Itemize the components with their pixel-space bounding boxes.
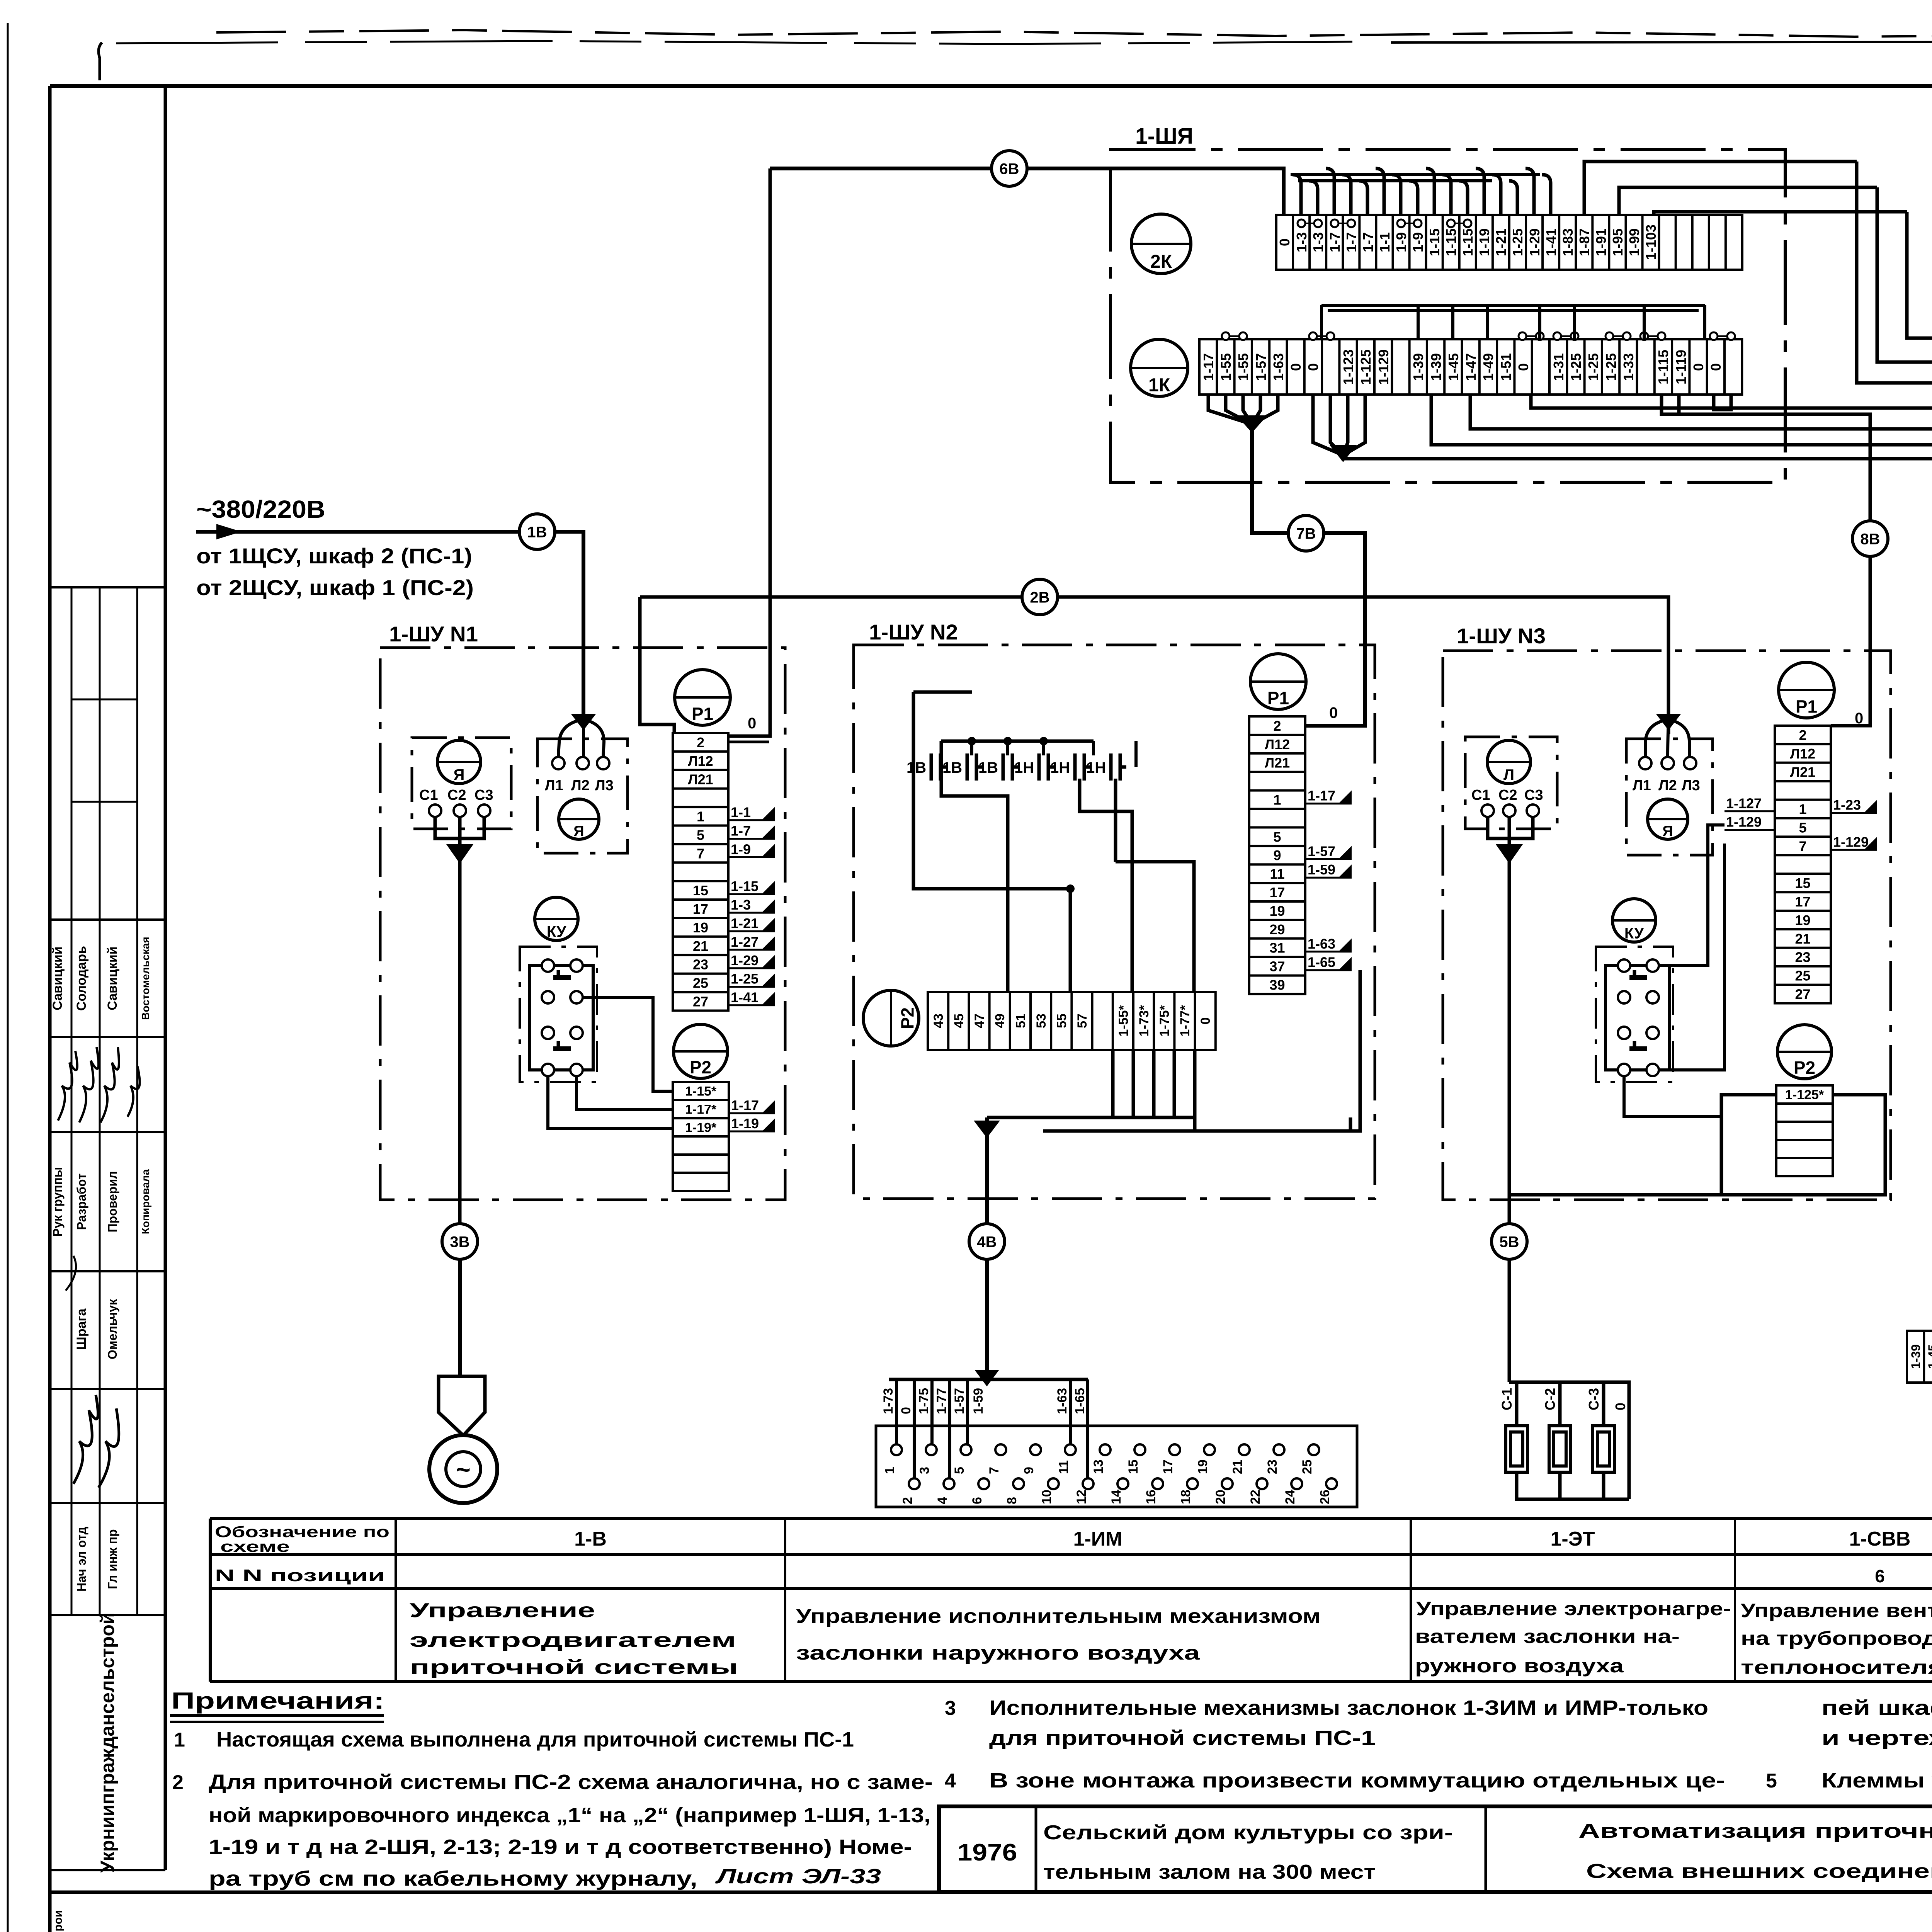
svg-text:и чертежами ЭЛ-: и чертежами ЭЛ-	[1821, 1726, 1932, 1750]
side stamp table	[51, 587, 165, 1870]
svg-text:5: 5	[1766, 1770, 1777, 1792]
svg-text:Гл инж пр: Гл инж пр	[105, 1529, 119, 1589]
svg-text:1-59: 1-59	[1308, 862, 1335, 878]
node 2В	[1022, 579, 1058, 615]
svg-text:1-21: 1-21	[731, 915, 759, 931]
svg-text:25: 25	[1795, 968, 1810, 984]
svg-text:0: 0	[1198, 1017, 1213, 1025]
svg-text:1-31: 1-31	[1551, 353, 1566, 381]
strip Р2 N3	[1776, 1085, 1833, 1176]
wires Р2 N3 to bottom bus	[1509, 1095, 1885, 1195]
svg-text:В зоне монтажа произвести: В зоне монтажа произвести коммутацию отд…	[989, 1769, 1725, 1792]
svg-text:2: 2	[697, 735, 704, 750]
svg-text:5: 5	[1799, 820, 1806, 835]
svg-text:С1: С1	[1471, 787, 1490, 803]
svg-text:1-129: 1-129	[1376, 349, 1391, 385]
svg-text:7В: 7В	[1296, 525, 1316, 542]
svg-text:14: 14	[1109, 1490, 1124, 1504]
svg-text:29: 29	[1269, 922, 1285, 937]
svg-text:55: 55	[1054, 1014, 1069, 1028]
svg-text:1-39: 1-39	[1428, 353, 1444, 381]
svg-text:27: 27	[1795, 986, 1810, 1002]
wires КУ to Р2 strip N1	[583, 997, 673, 1091]
svg-text:КУ: КУ	[547, 923, 566, 940]
relay Р2 circle N3	[1777, 1025, 1832, 1079]
svg-text:электродвигателем: электродвигателем	[410, 1629, 736, 1651]
svg-text:1-17*: 1-17*	[685, 1102, 717, 1117]
svg-text:23: 23	[693, 957, 708, 973]
svg-text:57: 57	[1075, 1014, 1090, 1028]
svg-text:2В: 2В	[1030, 589, 1049, 606]
svg-text:3В: 3В	[450, 1233, 469, 1250]
title block	[939, 1806, 1932, 1892]
svg-text:37: 37	[1269, 959, 1285, 975]
device table	[210, 1519, 1932, 1682]
svg-text:0: 0	[748, 715, 756, 732]
svg-text:39: 39	[1269, 977, 1285, 993]
terminal strip 2К	[1276, 215, 1742, 270]
motor unit box N3	[1465, 737, 1557, 829]
svg-text:1-39: 1-39	[1909, 1344, 1923, 1369]
svg-text:4: 4	[945, 1770, 956, 1792]
svg-text:5: 5	[1273, 829, 1281, 845]
svg-text:15: 15	[693, 883, 708, 898]
svg-text:25: 25	[1300, 1459, 1315, 1474]
wire labels 1-ИМ	[881, 1388, 1087, 1414]
svg-text:1-75*: 1-75*	[1157, 1005, 1172, 1037]
svg-text:1: 1	[883, 1467, 897, 1474]
svg-text:от 1ЩСУ, шкаф 2 (ПС-1): от 1ЩСУ, шкаф 2 (ПС-1)	[196, 544, 472, 568]
svg-text:1-25: 1-25	[1510, 228, 1526, 256]
svg-text:1-19*: 1-19*	[685, 1121, 717, 1135]
node 8В	[1852, 521, 1888, 556]
svg-text:1-87: 1-87	[1577, 228, 1592, 256]
svg-text:1-63: 1-63	[1055, 1388, 1070, 1414]
svg-text:1-3: 1-3	[731, 897, 751, 913]
svg-text:1-77*: 1-77*	[1178, 1005, 1192, 1037]
svg-text:1-95: 1-95	[1610, 228, 1626, 256]
svg-text:16: 16	[1144, 1490, 1158, 1504]
svg-text:1-73: 1-73	[881, 1388, 896, 1414]
svg-text:1-57: 1-57	[952, 1388, 967, 1414]
svg-text:43: 43	[931, 1014, 946, 1028]
motor Л circle N3	[1487, 740, 1531, 784]
relay Р2 circle N1	[673, 1024, 728, 1078]
jumper links on 1К strip	[1222, 332, 1735, 340]
svg-text:0: 0	[1708, 363, 1724, 371]
svg-text:С3: С3	[1524, 787, 1543, 803]
svg-text:23: 23	[1265, 1459, 1280, 1474]
svg-text:Рук группы: Рук группы	[51, 1167, 65, 1236]
svg-text:27: 27	[693, 994, 708, 1010]
svg-text:1-127: 1-127	[1726, 796, 1762, 811]
svg-text:1-3: 1-3	[1294, 232, 1310, 252]
contactor КУ box N3	[1596, 947, 1673, 1082]
svg-text:1-27: 1-27	[731, 934, 759, 950]
svg-text:1В: 1В	[906, 759, 926, 776]
svg-text:Для приточной системы ПС-2: Для приточной системы ПС-2 схема аналоги…	[209, 1770, 933, 1794]
svg-text:1-9: 1-9	[731, 841, 751, 857]
svg-text:Л1: Л1	[545, 777, 563, 794]
svg-text:1-СВВ: 1-СВВ	[1849, 1528, 1911, 1550]
svg-text:Управление: Управление	[410, 1599, 595, 1622]
svg-text:1-ШЯ: 1-ШЯ	[1135, 124, 1193, 149]
flags N1 P2	[729, 1097, 775, 1131]
stubs 1К strip to jumper buses	[1321, 305, 1705, 339]
contactor terminals N1	[552, 757, 609, 769]
svg-text:1-63: 1-63	[1308, 936, 1335, 952]
svg-text:Клеммы * демаркировать: Клеммы * демаркировать	[1821, 1769, 1932, 1792]
svg-text:1-129: 1-129	[1833, 834, 1869, 850]
svg-text:21: 21	[693, 938, 708, 954]
svg-text:19: 19	[1795, 912, 1810, 928]
stamp role labels	[51, 1167, 151, 1236]
svg-text:1-47: 1-47	[1463, 353, 1479, 381]
svg-text:49: 49	[993, 1014, 1007, 1028]
svg-text:1-7: 1-7	[1327, 232, 1343, 252]
node 4В	[969, 1224, 1005, 1259]
svg-text:1-15*: 1-15*	[685, 1084, 717, 1099]
svg-text:15: 15	[1795, 875, 1810, 891]
wire 1К to 1-2ТР (11В)	[1470, 395, 1932, 1376]
svg-text:3: 3	[945, 1697, 956, 1719]
svg-text:25: 25	[693, 975, 708, 991]
svg-text:31: 31	[1269, 940, 1285, 956]
wire merge to node 9В run	[1313, 395, 1365, 455]
node 6В	[992, 151, 1027, 186]
relay Р2 circle N2	[863, 990, 919, 1046]
svg-text:1-57: 1-57	[1253, 353, 1269, 381]
svg-text:0: 0	[1277, 238, 1293, 246]
svg-text:Шрага: Шрага	[74, 1308, 89, 1350]
svg-text:19: 19	[1196, 1459, 1210, 1474]
wires КУ to flags N3	[1659, 825, 1725, 966]
wire 1К right cells to 8В	[1662, 395, 1870, 726]
svg-text:1-75: 1-75	[917, 1388, 931, 1414]
jumper links on 2К strip	[1298, 219, 1471, 227]
svg-text:9: 9	[1022, 1467, 1036, 1474]
svg-text:1-9: 1-9	[1393, 232, 1409, 252]
svg-text:5: 5	[952, 1467, 967, 1474]
svg-text:Солодарь: Солодарь	[74, 946, 89, 1011]
svg-text:1-119: 1-119	[1673, 350, 1689, 384]
svg-text:на трубопроводе: на трубопроводе	[1741, 1628, 1932, 1649]
svg-text:Управление электронагре-: Управление электронагре-	[1416, 1598, 1731, 1619]
svg-text:1-15: 1-15	[731, 878, 759, 894]
strip Р2 N2	[928, 992, 1216, 1050]
svg-text:1-23: 1-23	[1833, 797, 1861, 813]
svg-text:12: 12	[1074, 1490, 1089, 1504]
wires below Р2 strip N2	[987, 1050, 1195, 1131]
heater 1-ЭТ fuse group	[1509, 1259, 1629, 1499]
svg-text:КУ: КУ	[1624, 925, 1644, 942]
wire 1К to ИМР (12В)	[1531, 395, 1932, 1381]
node 3В	[442, 1224, 478, 1259]
svg-text:1-21: 1-21	[1493, 228, 1509, 256]
svg-text:Л21: Л21	[688, 772, 713, 787]
svg-text:11: 11	[1056, 1460, 1071, 1474]
stamp role labels 2	[75, 1527, 119, 1592]
svg-text:1-33: 1-33	[1621, 353, 1636, 381]
svg-text:8В: 8В	[1860, 531, 1880, 548]
svg-text:1-99: 1-99	[1626, 228, 1642, 256]
svg-text:21: 21	[1230, 1459, 1245, 1474]
svg-text:1-15: 1-15	[1427, 228, 1442, 256]
contactor КУ circle N3	[1612, 899, 1656, 942]
svg-text:1-7: 1-7	[731, 823, 751, 839]
svg-text:Востомельская: Востомельская	[139, 937, 151, 1020]
svg-text:2К: 2К	[1150, 252, 1172, 272]
svg-text:1-ИМ: 1-ИМ	[1073, 1528, 1122, 1550]
motor Я circle N1	[437, 740, 481, 784]
svg-text:1-ШУ N3: 1-ШУ N3	[1457, 624, 1546, 648]
svg-text:24: 24	[1283, 1490, 1298, 1504]
contactor box Л1Л2Л3 N1	[537, 739, 628, 853]
svg-text:20: 20	[1213, 1490, 1228, 1504]
svg-text:1-59: 1-59	[971, 1388, 986, 1414]
relay Р1 circle N1	[675, 670, 730, 725]
svg-text:Л21: Л21	[1790, 764, 1815, 780]
svg-text:2: 2	[1273, 718, 1281, 734]
svg-text:1-19: 1-19	[731, 1116, 759, 1131]
svg-text:1: 1	[174, 1729, 185, 1751]
wire bus 6В	[770, 167, 992, 170]
svg-text:21: 21	[1795, 931, 1810, 947]
svg-text:13: 13	[1091, 1459, 1106, 1474]
svg-text:Р1: Р1	[1267, 688, 1289, 708]
svg-text:С-2: С-2	[1542, 1388, 1558, 1410]
wires 2К strip cells to bus	[1291, 168, 1551, 215]
svg-text:10: 10	[1039, 1490, 1054, 1504]
svg-text:17: 17	[693, 901, 708, 917]
svg-text:приточной системы: приточной системы	[410, 1656, 738, 1679]
node 1В	[519, 514, 555, 549]
stamp signatures	[58, 1047, 140, 1122]
svg-text:0: 0	[1855, 710, 1863, 727]
terminal block 2К label	[1131, 214, 1191, 274]
flags N1 P1	[728, 804, 775, 1005]
wire 7В to ШУ N2 strip	[1305, 533, 1365, 726]
svg-text:1-1: 1-1	[1377, 232, 1393, 252]
svg-text:Управление исполнительным ме: Управление исполнительным механизмом	[796, 1605, 1321, 1628]
contactor box N3	[1626, 739, 1713, 855]
svg-text:1-65: 1-65	[1308, 954, 1335, 970]
svg-text:Примечания:: Примечания:	[171, 1688, 384, 1714]
wire staircase to 15В	[1907, 212, 1932, 1381]
svg-text:1-65: 1-65	[1073, 1388, 1087, 1414]
svg-text:вателем заслонки на-: вателем заслонки на-	[1415, 1626, 1680, 1647]
flags N3 P1	[1725, 796, 1877, 850]
svg-text:1-25: 1-25	[1585, 353, 1601, 381]
1-ИМ pins	[891, 1444, 1337, 1489]
node 7В	[1288, 515, 1324, 551]
svg-text:1-7: 1-7	[1344, 232, 1359, 252]
svg-text:1-55: 1-55	[1218, 353, 1234, 381]
torn paper top edge	[99, 30, 1932, 80]
svg-text:ной маркировочного индекса: ной маркировочного индекса „1“ на „2“ (н…	[209, 1804, 930, 1827]
svg-text:Настоящая схема выполнена д: Настоящая схема выполнена для приточной …	[216, 1728, 854, 1751]
actuator 1-ИМ terminal box	[985, 1259, 989, 1379]
svg-text:1-19 и т д на 2-ШЯ, 2-13; 2: 1-19 и т д на 2-ШЯ, 2-13; 2-19 и т д соо…	[209, 1835, 912, 1859]
wire motor merge to 5В	[1488, 817, 1533, 1224]
stamp signatures 2	[73, 1395, 119, 1488]
svg-text:47: 47	[972, 1014, 987, 1028]
svg-text:N N позиции: N N позиции	[215, 1566, 385, 1585]
node 5В	[1492, 1224, 1527, 1259]
svg-text:С-1: С-1	[1499, 1388, 1515, 1410]
svg-text:1-17: 1-17	[1201, 353, 1216, 381]
svg-text:1-125: 1-125	[1358, 349, 1374, 385]
svg-text:0: 0	[1690, 363, 1706, 371]
svg-text:1-1: 1-1	[731, 804, 751, 820]
svg-text:1: 1	[697, 809, 704, 825]
svg-text:1-41: 1-41	[1543, 228, 1559, 256]
svg-text:пей шкафов ШУ в соответстви: пей шкафов ШУ в соответствии с настоящим…	[1821, 1696, 1932, 1719]
svg-text:23: 23	[1795, 949, 1810, 965]
svg-text:1-45: 1-45	[1926, 1344, 1932, 1369]
svg-text:1-17: 1-17	[731, 1097, 759, 1113]
contactor КУ circle N1	[535, 897, 578, 940]
svg-text:6В: 6В	[999, 160, 1019, 177]
svg-text:1-125*: 1-125*	[1785, 1088, 1824, 1102]
svg-text:4В: 4В	[977, 1233, 997, 1250]
wire 380V feed to node 1B	[196, 530, 519, 534]
svg-text:Л3: Л3	[595, 777, 614, 794]
svg-text:Я: Я	[573, 823, 584, 840]
svg-text:1-83: 1-83	[1560, 228, 1576, 256]
svg-text:1-25: 1-25	[731, 971, 759, 987]
svg-text:Л21: Л21	[1265, 755, 1290, 771]
wire motor feed merge to 3В	[435, 817, 484, 1224]
terminal strip 1К	[1199, 339, 1742, 395]
strip Р2 N1	[673, 1082, 729, 1191]
wire 1К to 1-1ТР (10В)	[1431, 395, 1932, 1376]
relay Р1 circle N2	[1250, 654, 1306, 709]
svg-text:Я: Я	[454, 767, 465, 784]
wire staircase to 13В	[1857, 162, 1932, 1381]
strip Р1 N3	[1775, 726, 1831, 1003]
svg-text:заслонки наружного воздуха: заслонки наружного воздуха	[796, 1642, 1201, 1664]
svg-text:Лист ЭЛ-33: Лист ЭЛ-33	[715, 1865, 881, 1888]
svg-text:Л2: Л2	[1658, 777, 1677, 794]
svg-text:7: 7	[1799, 838, 1806, 854]
svg-text:19: 19	[693, 920, 708, 935]
svg-text:1К: 1К	[1148, 375, 1170, 395]
svg-text:1-41: 1-41	[731, 990, 759, 1005]
contactor КУ box N1	[520, 947, 597, 1082]
svg-text:1-51: 1-51	[1498, 353, 1514, 381]
left paper edge	[7, 23, 9, 1932]
svg-text:Л12: Л12	[688, 753, 713, 769]
svg-text:22: 22	[1248, 1490, 1263, 1504]
svg-text:Р1: Р1	[692, 704, 713, 724]
svg-text:~: ~	[456, 1456, 470, 1483]
svg-text:Савицкий: Савицкий	[105, 946, 120, 1010]
svg-text:51: 51	[1014, 1014, 1028, 1028]
svg-text:1-91: 1-91	[1593, 228, 1609, 256]
fuse labels С-1 С-2 С-3	[1499, 1388, 1628, 1410]
svg-text:тельным залом на 300 мест: тельным залом на 300 мест	[1043, 1861, 1376, 1883]
wire merge to node 7В	[1208, 395, 1278, 424]
svg-text:1-123: 1-123	[1340, 349, 1356, 385]
svg-text:Проверил: Проверил	[105, 1171, 119, 1233]
wire staircase to 14В	[1877, 187, 1932, 1381]
svg-text:Р2: Р2	[690, 1057, 711, 1077]
svg-text:1-15: 1-15	[1460, 228, 1476, 256]
svg-text:1В: 1В	[978, 759, 998, 776]
svg-text:2: 2	[172, 1771, 184, 1794]
svg-text:Л12: Л12	[1265, 736, 1290, 752]
svg-text:1-129: 1-129	[1726, 814, 1762, 830]
svg-text:ружного воздуха: ружного воздуха	[1415, 1655, 1624, 1677]
svg-text:Я: Я	[1662, 823, 1673, 840]
svg-text:1-77: 1-77	[934, 1388, 949, 1414]
svg-text:2: 2	[1799, 727, 1806, 743]
svg-text:1-25: 1-25	[1603, 353, 1619, 381]
svg-text:Л: Л	[1503, 767, 1514, 784]
svg-text:0: 0	[899, 1407, 913, 1414]
svg-text:1-103: 1-103	[1643, 224, 1659, 260]
svg-text:1-115: 1-115	[1655, 350, 1671, 384]
svg-text:1-ШУ N2: 1-ШУ N2	[869, 620, 958, 644]
jumper buses above 1К strip	[1321, 304, 1705, 307]
svg-text:1-29: 1-29	[731, 952, 759, 968]
svg-text:Л3: Л3	[1682, 777, 1700, 794]
svg-text:1Н: 1Н	[1086, 759, 1106, 776]
svg-text:1-57: 1-57	[1308, 843, 1335, 859]
svg-text:С1: С1	[419, 787, 438, 803]
svg-text:17: 17	[1795, 894, 1810, 910]
wire mesh N2	[913, 692, 1070, 992]
motor unit box N1	[412, 738, 511, 829]
svg-text:1В: 1В	[942, 759, 962, 776]
strip Р1 N2	[1249, 716, 1305, 994]
svg-text:0: 0	[1612, 1403, 1628, 1410]
svg-text:ра труб см по кабельному: ра труб см по кабельному журналу,	[209, 1867, 697, 1890]
svg-text:1-7: 1-7	[1360, 232, 1376, 252]
svg-text:7: 7	[697, 845, 704, 861]
svg-text:Л1: Л1	[1633, 777, 1651, 794]
svg-text:1-45: 1-45	[1446, 353, 1461, 381]
svg-text:1-19: 1-19	[1476, 228, 1492, 256]
terminal block 1К label	[1131, 339, 1188, 396]
wire 1B to ШУ N1 contactor	[555, 532, 583, 719]
svg-text:С3: С3	[474, 787, 493, 803]
svg-text:Копировала: Копировала	[139, 1169, 151, 1234]
svg-text:Л2: Л2	[571, 777, 590, 794]
svg-text:1В: 1В	[527, 524, 547, 541]
svg-text:Л12: Л12	[1790, 746, 1815, 762]
svg-text:Р2: Р2	[1794, 1058, 1815, 1078]
svg-text:Исполнительные механизмы зас: Исполнительные механизмы заслонок 1-ЗИМ …	[989, 1696, 1708, 1719]
svg-text:схеме: схеме	[220, 1538, 290, 1555]
svg-text:Омельчук: Омельчук	[105, 1299, 119, 1359]
svg-text:1-15: 1-15	[1443, 228, 1459, 256]
svg-text:Р2: Р2	[897, 1007, 917, 1029]
svg-text:1976: 1976	[957, 1839, 1017, 1866]
svg-text:53: 53	[1034, 1014, 1049, 1028]
svg-text:теплоносителя: теплоносителя	[1741, 1656, 1932, 1678]
svg-text:0: 0	[1515, 363, 1531, 371]
svg-text:Укрниипграждансельстрой: Укрниипграждансельстрой	[97, 1612, 118, 1872]
svg-text:1-17: 1-17	[1308, 788, 1335, 804]
svg-text:С-3: С-3	[1586, 1388, 1602, 1410]
svg-text:11: 11	[1270, 866, 1284, 882]
svg-text:Управление вентилем: Управление вентилем	[1741, 1600, 1932, 1621]
relay Р1 circle N3	[1779, 662, 1834, 718]
svg-text:прои: прои	[52, 1910, 65, 1932]
svg-text:0: 0	[1305, 363, 1321, 371]
